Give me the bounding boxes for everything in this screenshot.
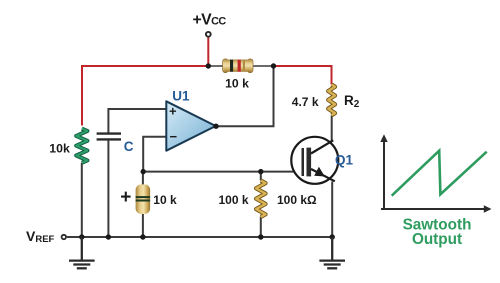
wire: left 10k resistor bottom to rail <box>81 163 83 237</box>
wire: middle horizontal node to transistor base <box>143 171 302 173</box>
svg-text:Output: Output <box>412 231 462 248</box>
wire: transistor emitter down to rail <box>331 182 333 238</box>
resistor 10k pictorial (top) <box>209 59 274 73</box>
wire: op-amp + input to capacitor C <box>108 109 166 133</box>
sawtooth waveform <box>392 151 487 196</box>
capacitor C <box>97 134 121 140</box>
resistor 100k coil <box>256 181 265 217</box>
wire: red from +Vcc terminal down to top junction <box>207 37 209 66</box>
wire: bottom VREF rail <box>67 236 332 238</box>
svg-text:100 k: 100 k <box>218 193 248 207</box>
svg-text:U1: U1 <box>172 89 190 104</box>
resistor R2 4.7k coil <box>328 85 335 116</box>
wire: op-amp - input down to middle node <box>143 137 166 172</box>
terminal +Vcc <box>206 32 211 37</box>
resistor 10k coil (left, teal) <box>76 129 87 163</box>
svg-text:4.7 k: 4.7 k <box>292 95 319 109</box>
svg-text:Q1: Q1 <box>335 152 354 167</box>
capacitor electrolytic 10k (bottom) <box>136 184 151 214</box>
sawtooth graph axes <box>380 134 491 213</box>
svg-text:−: − <box>170 129 178 144</box>
wire: electrolytic cap leads <box>142 172 144 237</box>
node: op-amp output junction <box>213 124 218 129</box>
svg-text:10 k: 10 k <box>153 193 177 207</box>
svg-text:C: C <box>124 139 134 154</box>
wire: red top rail left, down left side to 10k resistor <box>82 66 208 126</box>
wire: red from right junction to R2 top <box>274 66 332 85</box>
transistor Q1 <box>291 137 338 184</box>
svg-text:10 k: 10 k <box>225 76 249 90</box>
wire: capacitor C bottom to ground rail <box>107 140 109 237</box>
ground (right, under Q1) <box>319 237 345 268</box>
terminal VREF <box>62 235 66 239</box>
wire: feedback from op-amp output up to top junction <box>216 66 274 126</box>
svg-text:+: + <box>169 104 177 119</box>
svg-text:+: + <box>120 187 131 208</box>
svg-text:100 kΩ: 100 kΩ <box>277 193 317 207</box>
svg-text:10k: 10k <box>49 141 70 155</box>
ground (left) <box>69 237 95 268</box>
wire: 100k resistor leads <box>260 172 262 237</box>
wire: R2 bottom to transistor collector <box>331 115 333 141</box>
op-amp U1 <box>166 101 215 150</box>
node: junction dots <box>206 63 211 68</box>
